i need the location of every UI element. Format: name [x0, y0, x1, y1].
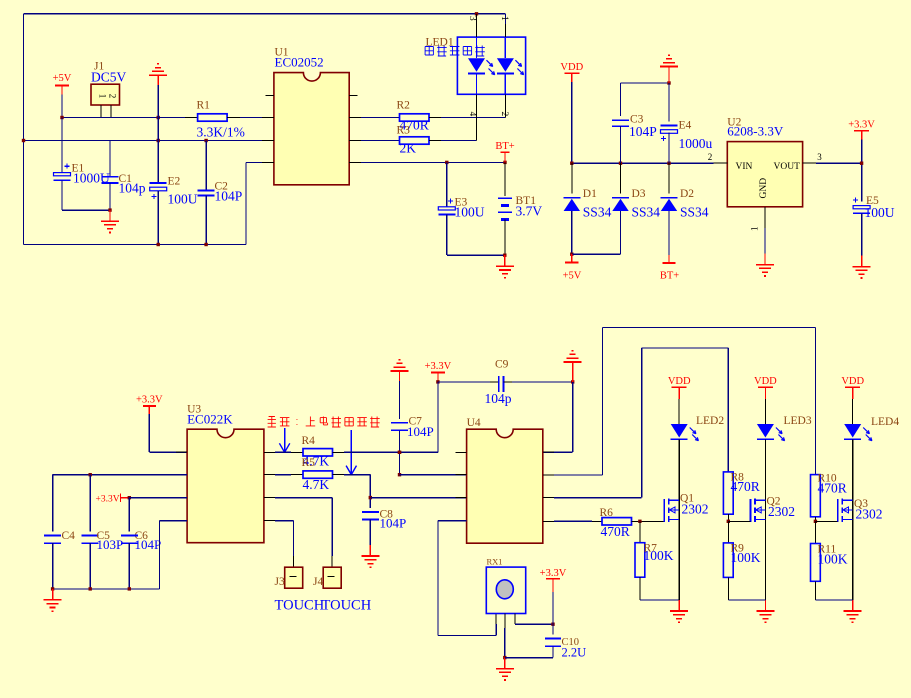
svg-text:104P: 104P — [215, 189, 243, 204]
svg-text:104P: 104P — [135, 537, 162, 552]
svg-text:+3.3V: +3.3V — [136, 395, 163, 406]
svg-text:470R: 470R — [601, 524, 630, 539]
svg-text:E4: E4 — [679, 120, 692, 132]
svg-text:2: 2 — [708, 152, 713, 162]
svg-text:100U: 100U — [455, 205, 485, 220]
svg-text:104P: 104P — [380, 515, 407, 530]
svg-text:2302: 2302 — [856, 507, 883, 522]
svg-text:VOUT: VOUT — [774, 162, 801, 172]
svg-text:+3.3V: +3.3V — [540, 568, 567, 579]
svg-text:C9: C9 — [495, 359, 509, 371]
svg-text:SS34: SS34 — [583, 205, 612, 220]
svg-text:R4: R4 — [302, 435, 316, 447]
svg-text:LED4: LED4 — [871, 416, 899, 428]
svg-text:3: 3 — [817, 152, 822, 162]
svg-text:1: 1 — [750, 227, 760, 232]
svg-text:J3: J3 — [275, 576, 285, 588]
svg-text:+3.3V: +3.3V — [848, 120, 875, 131]
svg-text:D1: D1 — [583, 188, 597, 200]
svg-text:104p: 104p — [485, 391, 512, 406]
svg-text:1000u: 1000u — [679, 136, 713, 151]
svg-text:+3.3V: +3.3V — [425, 361, 452, 372]
svg-text:DC5V: DC5V — [91, 70, 127, 85]
svg-text:1: 1 — [499, 16, 509, 21]
svg-text:EC02052: EC02052 — [275, 55, 324, 70]
svg-text:2: 2 — [108, 94, 118, 99]
svg-text:100U: 100U — [865, 205, 895, 220]
svg-text:D3: D3 — [632, 188, 646, 200]
svg-text:100K: 100K — [818, 552, 848, 567]
svg-text:R5: R5 — [302, 457, 316, 469]
svg-text:470R: 470R — [818, 481, 847, 496]
svg-text:SS34: SS34 — [632, 205, 661, 220]
svg-text:2302: 2302 — [682, 502, 709, 517]
svg-text:VIN: VIN — [736, 162, 753, 172]
svg-text:U4: U4 — [467, 417, 481, 429]
svg-text:1: 1 — [98, 94, 108, 99]
svg-text:100K: 100K — [731, 550, 761, 565]
svg-text:+5V: +5V — [53, 73, 72, 84]
svg-text:J4: J4 — [313, 576, 323, 588]
svg-text:C4: C4 — [62, 530, 76, 542]
svg-text:R3: R3 — [397, 125, 411, 137]
svg-text:3: 3 — [467, 16, 477, 21]
svg-text:EC022K: EC022K — [187, 412, 233, 427]
svg-text:2K: 2K — [400, 141, 417, 156]
svg-text:VDD: VDD — [754, 376, 777, 387]
svg-text:BT+: BT+ — [495, 141, 514, 152]
svg-text:BT+: BT+ — [660, 271, 679, 282]
svg-text:+3.3V: +3.3V — [96, 495, 120, 505]
svg-text:VDD: VDD — [560, 62, 583, 73]
svg-text:100U: 100U — [168, 192, 198, 207]
svg-text:4.7K: 4.7K — [303, 477, 330, 492]
svg-text:GND: GND — [759, 178, 769, 199]
svg-text:SS34: SS34 — [680, 205, 709, 220]
svg-text:470R: 470R — [731, 479, 760, 494]
svg-text:6208-3.3V: 6208-3.3V — [727, 124, 784, 139]
svg-text:2.2U: 2.2U — [562, 646, 587, 660]
svg-text:E2: E2 — [168, 176, 181, 188]
svg-text:104p: 104p — [119, 181, 146, 196]
svg-text:R2: R2 — [397, 100, 411, 112]
svg-text:3.3K/1%: 3.3K/1% — [197, 125, 245, 140]
svg-text:VDD: VDD — [841, 376, 864, 387]
svg-text:+5V: +5V — [563, 271, 582, 282]
svg-text:RX1: RX1 — [487, 557, 503, 567]
svg-text:103P: 103P — [97, 537, 124, 552]
svg-text:2: 2 — [499, 112, 509, 117]
svg-text:VDD: VDD — [668, 376, 691, 387]
svg-text:104P: 104P — [629, 124, 657, 139]
svg-text:LED2: LED2 — [696, 415, 724, 427]
svg-text:100K: 100K — [644, 548, 674, 563]
svg-text:4: 4 — [467, 112, 477, 117]
svg-text:2302: 2302 — [768, 504, 795, 519]
svg-text:R1: R1 — [197, 100, 211, 112]
svg-text:D2: D2 — [680, 188, 694, 200]
svg-text:104P: 104P — [407, 424, 434, 439]
svg-text:TOUCH: TOUCH — [275, 598, 325, 614]
svg-text:3.7V: 3.7V — [516, 204, 543, 219]
svg-text:LED3: LED3 — [784, 415, 812, 427]
svg-text:TOUCH: TOUCH — [322, 598, 372, 614]
